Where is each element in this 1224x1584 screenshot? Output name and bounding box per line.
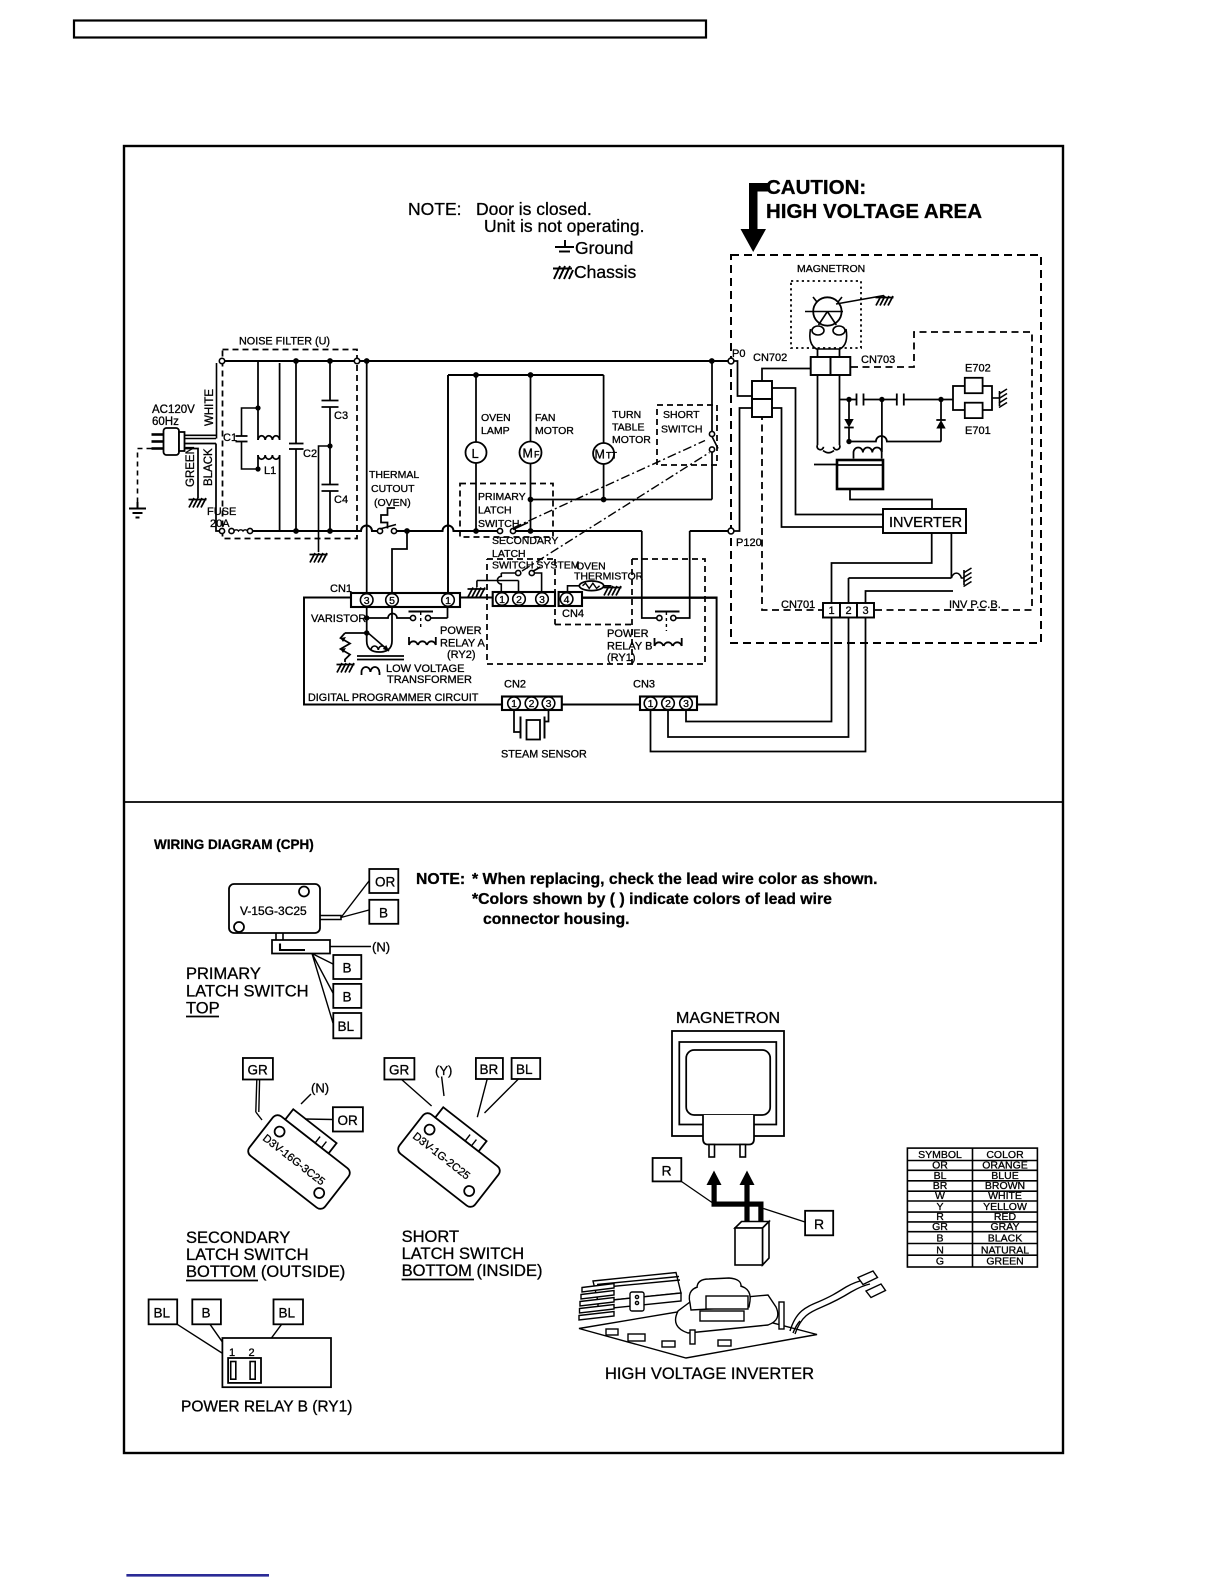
NOTE legend text [408,199,645,282]
secondary latch leads [477,573,542,593]
svg-text:VARISTOR: VARISTOR [311,613,366,625]
svg-text:SWITCH: SWITCH [661,424,702,436]
svg-text:OVEN: OVEN [481,412,511,424]
HV transformer core [837,460,883,489]
svg-text:Ground: Ground [575,238,633,258]
svg-text:WIRING DIAGRAM (CPH): WIRING DIAGRAM (CPH) [154,837,314,852]
svg-text:1: 1 [499,594,505,606]
svg-text:MAGNETRON: MAGNETRON [676,1010,780,1027]
leader to OR [341,881,369,918]
svg-text:3: 3 [683,698,689,710]
secondary latch lever [256,1080,262,1121]
high voltage area dashed box [731,255,1041,643]
thermal cutout label [369,469,419,509]
INV PCB dashed box [762,332,1032,610]
power relay B outline [222,1338,331,1387]
fan motor MF [530,375,532,531]
relay B connector [228,1358,261,1383]
svg-text:BL: BL [279,1306,296,1321]
svg-text:POWER: POWER [440,625,482,637]
top bus wire [222,360,728,362]
svg-text:BLACK: BLACK [988,1233,1022,1245]
svg-text:B: B [343,961,352,976]
WHITE wire [185,363,218,439]
BL box 1 (relay B fig) [149,1299,178,1324]
P120 wire to CN702 [734,408,752,531]
svg-text:TABLE: TABLE [612,422,644,434]
svg-text:GREEN: GREEN [185,446,197,487]
svg-text:F: F [534,450,540,460]
svg-text:SHORT: SHORT [663,409,700,421]
OR box [369,869,398,893]
svg-text:B: B [343,989,352,1004]
low voltage transformer primary [367,607,392,652]
leads to B B BL [312,954,333,1024]
svg-text:P120: P120 [736,537,762,549]
svg-text:THERMAL: THERMAL [369,469,419,481]
svg-text:1: 1 [229,1347,235,1359]
chassis (latch system) [476,581,478,588]
svg-text:5: 5 [389,595,395,607]
leader to B [341,910,369,918]
svg-text:C2: C2 [303,448,317,460]
doubler return wire [849,436,941,442]
svg-text:RELAY B: RELAY B [607,641,652,653]
power relay A coil [409,637,436,645]
AC plug [152,428,185,455]
turn table motor MTT [603,375,605,500]
svg-text:(N): (N) [311,1081,329,1096]
HV capacitor row [840,399,954,401]
leader from R left [681,1181,712,1202]
header box [74,21,706,38]
svg-text:MOTOR: MOTOR [612,434,651,446]
svg-text:MAGNETRON: MAGNETRON [797,263,865,275]
svg-text:LAMP: LAMP [481,425,510,437]
short latch caption [402,1228,543,1280]
inductor L1 lower coil [258,455,280,531]
thermal cutout symbol [381,508,395,529]
svg-text:NOISE FILTER (U): NOISE FILTER (U) [239,336,330,348]
svg-text:1: 1 [648,698,654,710]
secondary latch contacts [516,570,521,575]
HV diode 1 [848,400,850,442]
core to inverter wire [850,489,932,509]
svg-text:GRAY: GRAY [991,1221,1020,1233]
transformer core [357,656,404,660]
svg-text:(Y): (Y) [435,1063,452,1078]
svg-text:BR: BR [480,1062,499,1077]
GR box (short) [384,1058,414,1080]
B box 3 [333,984,361,1008]
svg-text:CN1: CN1 [330,583,352,595]
svg-text:2: 2 [249,1347,255,1359]
section divider [124,801,1063,803]
svg-text:THERMISTOR: THERMISTOR [574,571,644,583]
rail junction dots [293,528,533,534]
digital programmer circuit box [304,598,717,705]
capacitor C1 [236,408,258,469]
svg-text:NATURAL: NATURAL [981,1244,1029,1256]
node P0 [728,358,734,364]
svg-text:HIGH VOLTAGE AREA: HIGH VOLTAGE AREA [766,200,982,223]
svg-text:BL: BL [338,1019,355,1034]
BR box [476,1058,503,1079]
bus junction dots [293,358,715,378]
svg-text:(N): (N) [372,940,390,955]
svg-text:LATCH SWITCH: LATCH SWITCH [186,1246,309,1264]
svg-text:INV P.C.B.: INV P.C.B. [949,599,1001,611]
earth dashed lead [138,449,152,503]
CN702 to CN703 wire [762,369,811,382]
svg-text:* When replacing, check the le: * When replacing, check the lead wire co… [472,871,878,888]
BL box 2 (relay B fig) [274,1299,304,1324]
svg-text:*Colors shown by ( ) indicate: *Colors shown by ( ) indicate colors of … [472,891,832,908]
footer blue line [126,1574,269,1577]
HV inverter board [579,1271,886,1358]
svg-text:M: M [523,447,533,461]
node P120 [728,528,734,534]
ground legend symbol [555,240,574,252]
power relay B coil [655,638,682,646]
power relay B contacts [655,611,680,613]
inverter output wires [832,533,954,603]
svg-text:AC120V: AC120V [152,404,195,416]
svg-text:POWER RELAY B (RY1): POWER RELAY B (RY1) [181,1399,352,1416]
steam sensor [514,710,549,732]
magnetron antenna to chassis [836,296,884,305]
noise filter dashed box [223,350,358,539]
primary latch switch body V-15G-3C25 [229,884,320,933]
svg-text:RELAY A: RELAY A [440,638,486,650]
svg-text:WHITE: WHITE [204,389,216,426]
AC120V 60Hz label [152,404,195,428]
svg-text:CN4: CN4 [562,608,584,620]
svg-text:LATCH SWITCH: LATCH SWITCH [402,1245,525,1263]
svg-text:B: B [379,905,388,920]
svg-text:CAUTION:: CAUTION: [766,176,866,199]
svg-text:3: 3 [539,594,545,606]
primary latch caption [186,965,309,1018]
secondary latch caption [186,1229,345,1281]
svg-text:2: 2 [845,605,851,617]
svg-text:BL: BL [154,1306,171,1321]
svg-text:4: 4 [564,594,570,606]
HV diode 2 [940,400,942,442]
HV transformer secondary tap [881,400,883,453]
OR box (secondary) [333,1107,363,1131]
svg-text:SECONDARY: SECONDARY [492,535,558,547]
svg-text:L1: L1 [264,465,276,477]
svg-text:CN703: CN703 [861,354,895,366]
capacitor C4 [329,446,331,531]
C3/C4 midpoint to chassis [327,443,332,448]
svg-text:PRIMARY: PRIMARY [478,491,526,503]
bottom rail wire [253,526,729,532]
svg-text:2: 2 [665,698,671,710]
svg-text:TT: TT [606,451,617,461]
svg-text:FAN: FAN [535,412,555,424]
svg-text:STEAM SENSOR: STEAM SENSOR [501,749,587,761]
chassis (varistor) [337,663,355,673]
inverter ground [951,573,964,578]
svg-text:BOTTOM (INSIDE): BOTTOM (INSIDE) [402,1262,543,1280]
BLACK wire [185,444,220,532]
svg-text:C1: C1 [223,432,237,444]
svg-text:BL: BL [516,1062,533,1077]
chassis (thermistor) [604,586,622,596]
svg-text:B: B [202,1306,211,1321]
svg-text:NOTE:: NOTE: [416,871,465,888]
magnetron filament seals [810,326,847,349]
chassis legend symbol [553,266,573,279]
svg-text:CUTOUT: CUTOUT [371,483,415,495]
earth ground symbol [129,502,146,518]
svg-text:TRANSFORMER: TRANSFORMER [387,674,472,686]
CN3 pin3 wire to CN701 [686,618,832,722]
HV capacitor 3D box [735,1222,769,1229]
GR box (secondary) [243,1058,273,1080]
svg-text:TOP: TOP [186,1000,220,1018]
CN3 pin2 wire to CN701 [668,618,849,738]
chassis (filter midpoint) [310,553,328,563]
R box left [653,1158,682,1181]
plunger [320,916,341,920]
linkage dash-dot 2 [522,453,710,572]
capacitor C2 [295,361,297,531]
svg-text:CN2: CN2 [504,679,526,691]
inductor L1 upper coil [258,363,280,440]
P0 wire to CN702 [734,361,752,396]
svg-text:LATCH: LATCH [492,548,526,560]
B box [369,900,398,924]
caution arrow [741,183,769,252]
svg-text:L: L [472,446,479,461]
note block [416,871,878,928]
magnetron figure [672,1031,784,1136]
svg-text:2: 2 [516,594,522,606]
svg-text:B: B [936,1233,943,1245]
svg-text:BLACK: BLACK [203,448,215,486]
power relay A contacts [409,611,434,613]
svg-text:LATCH SWITCH: LATCH SWITCH [186,983,309,1001]
caution text [766,176,982,223]
svg-text:G: G [936,1256,944,1268]
motor link wire [531,499,713,501]
svg-text:LATCH: LATCH [478,505,512,517]
magnetron dotted box [791,281,861,348]
svg-text:(RY1): (RY1) [607,652,636,664]
oven lamp L [475,375,477,531]
L1 feed vertical [257,361,259,469]
svg-text:1: 1 [828,605,834,617]
primary latch contacts [497,528,502,533]
short latch leads [402,1077,519,1118]
svg-text:Unit is not operating.: Unit is not operating. [484,216,645,236]
svg-text:DIGITAL PROGRAMMER CIRCUIT: DIGITAL PROGRAMMER CIRCUIT [308,692,479,704]
svg-text:C3: C3 [334,410,348,422]
svg-text:SHORT: SHORT [402,1228,459,1246]
svg-text:INVERTER: INVERTER [889,515,962,531]
page frame [124,146,1063,1453]
svg-text:2: 2 [529,698,535,710]
svg-text:GR: GR [248,1063,269,1078]
svg-text:(RY2): (RY2) [447,649,476,661]
CN1 pin5 wire [392,531,407,592]
CN4 connector [493,592,555,606]
svg-text:connector housing.: connector housing. [483,911,630,928]
relay B feed wires [642,531,690,618]
svg-text:OR: OR [375,875,396,890]
svg-text:3: 3 [364,595,370,607]
oven thermistor [574,561,644,583]
CN702 outputs to inverter [772,388,883,527]
svg-text:P0: P0 [732,348,745,360]
linkage dash-dot 1 [513,441,705,529]
CN1 pin1 wire / lamp bus [448,375,604,592]
svg-text:3: 3 [546,698,552,710]
HV transformer primary coil [854,447,882,458]
svg-text:60Hz: 60Hz [152,416,179,428]
svg-text:R: R [814,1216,824,1232]
svg-text:CN701: CN701 [781,599,815,611]
filament loop [817,375,840,453]
svg-text:MOTOR: MOTOR [535,425,574,437]
svg-text:1: 1 [445,595,451,607]
svg-text:CN3: CN3 [633,679,655,691]
GREEN wire [185,449,199,499]
BL box (short) [512,1058,541,1079]
svg-text:SECONDARY: SECONDARY [186,1229,290,1247]
BL box [333,1013,361,1038]
E-block ground [992,397,1000,399]
R box right [805,1211,833,1236]
relay A contact wire [367,607,448,618]
svg-text:C4: C4 [334,494,348,506]
B box (relay B fig) [192,1299,221,1324]
leader from R right [764,1209,806,1223]
svg-text:GREEN: GREEN [986,1256,1023,1268]
inverter box [883,509,966,533]
primary latch switch dashed box [460,484,553,538]
CN1 pin3 wire [366,361,368,592]
transformer secondary [362,667,380,675]
svg-text:BOTTOM (OUTSIDE): BOTTOM (OUTSIDE) [186,1263,345,1281]
color code table [907,1148,1037,1267]
svg-text:V-15G-3C25: V-15G-3C25 [240,904,307,918]
svg-text:1: 1 [511,698,517,710]
thick arrows [707,1171,764,1223]
short switch dashed box [657,405,717,465]
svg-text:GR: GR [389,1063,410,1078]
(N) lead [330,946,371,948]
svg-text:N: N [936,1244,944,1256]
bottom connector block [276,933,283,940]
relay B leads [177,1324,281,1358]
svg-text:E702: E702 [965,363,991,375]
svg-text:3: 3 [862,605,868,617]
short switch contacts [709,431,714,436]
bus terminals at filter edges [219,358,224,363]
CN4 pin4 wire to DPC edge [582,597,717,599]
svg-text:M: M [595,448,605,462]
B box 2 [333,955,361,979]
svg-text:Chassis: Chassis [574,262,636,282]
magnetron leads [818,349,840,357]
short switch wire [711,361,713,500]
svg-text:TURN: TURN [612,409,641,421]
svg-text:R: R [662,1163,672,1179]
svg-text:POWER: POWER [607,628,649,640]
magnetron tube [813,297,841,325]
chassis (green wire) [189,498,207,508]
CN3 pin1 wire to CN701 [651,618,866,752]
svg-text:GR: GR [932,1221,948,1233]
svg-text:E701: E701 [965,425,991,437]
svg-text:HIGH VOLTAGE INVERTER: HIGH VOLTAGE INVERTER [605,1365,814,1383]
svg-text:FUSE: FUSE [207,506,236,518]
magnetron plug [703,1115,754,1145]
svg-text:NOTE:: NOTE: [408,199,461,219]
short latch switch body D3V-1G-2C25 [396,1101,510,1210]
secondary latch system dashed box [487,559,705,664]
svg-text:CN702: CN702 [753,352,787,364]
svg-text:OR: OR [338,1113,359,1128]
secondary latch switch body D3V-16G-3C25 [246,1103,360,1212]
capacitor C3 [329,361,331,446]
svg-text:PRIMARY: PRIMARY [186,965,261,983]
